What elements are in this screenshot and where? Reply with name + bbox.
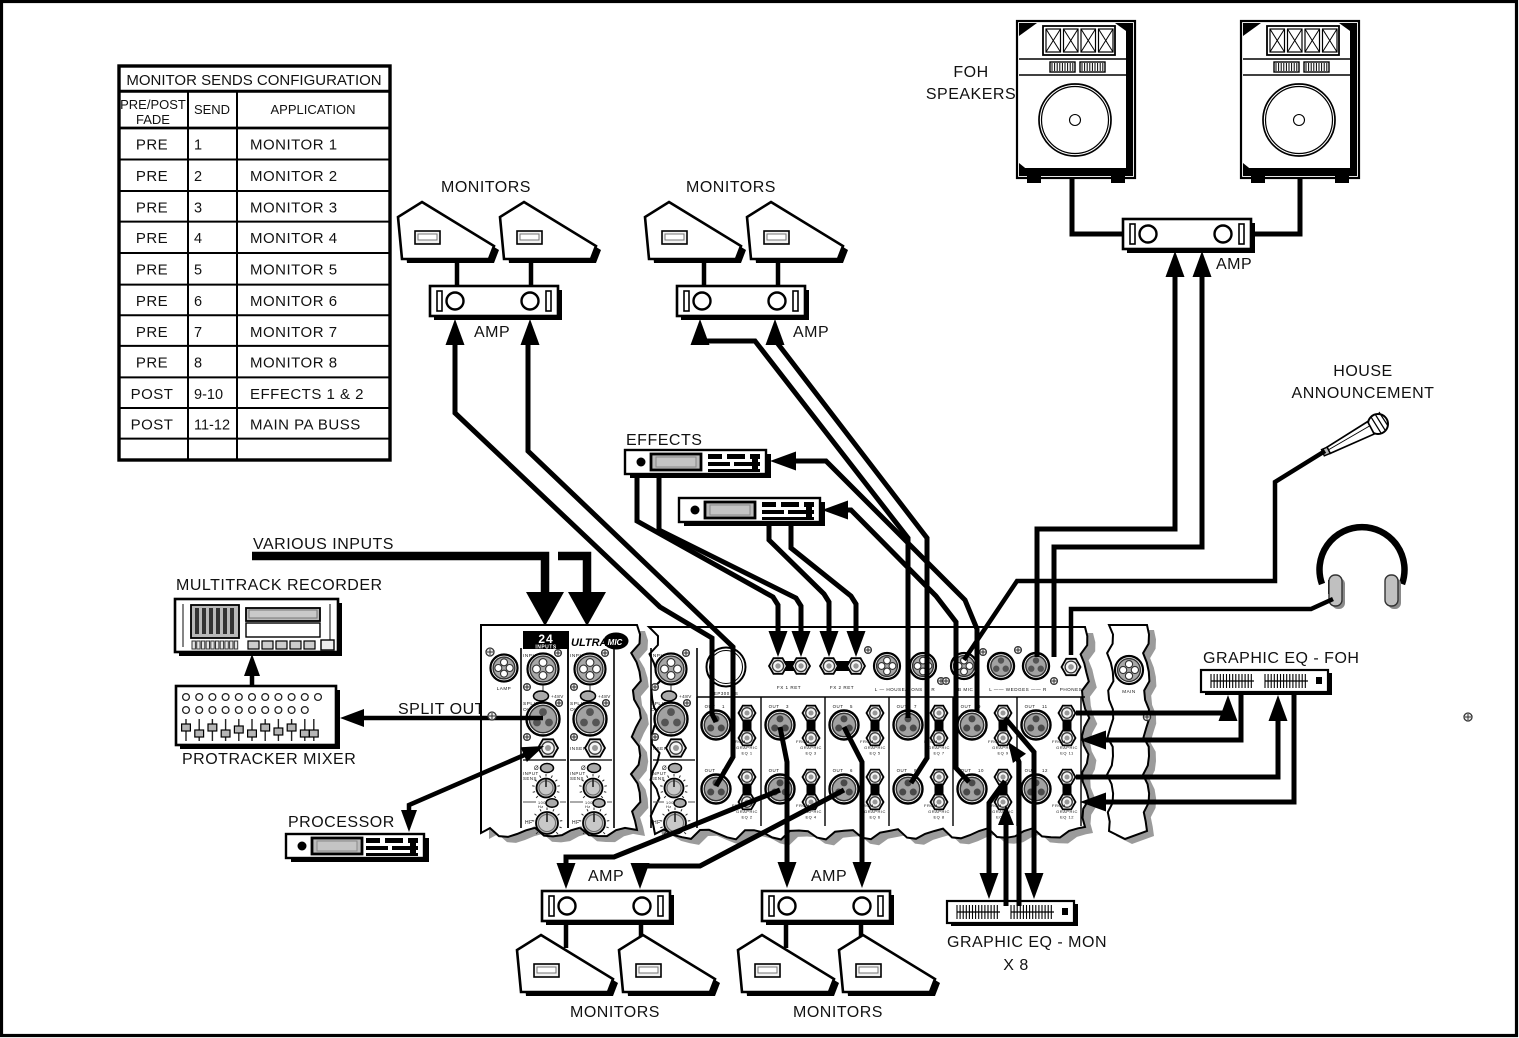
svg-text:PRE: PRE [136,137,168,154]
svg-text:4: 4 [194,231,202,247]
svg-text:APPLICATION: APPLICATION [270,102,355,117]
svg-text:7: 7 [194,325,202,341]
svg-text:MONITOR 1: MONITOR 1 [250,137,338,154]
svg-text:MONITORS: MONITORS [686,179,776,196]
svg-text:FADE: FADE [136,112,170,127]
svg-text:OUT: OUT [961,704,972,709]
svg-text:PRE: PRE [136,293,168,310]
svg-text:PROTRACKER MIXER: PROTRACKER MIXER [182,751,356,768]
svg-text:Hz: Hz [585,805,591,809]
svg-text:EQ 7: EQ 7 [933,751,944,756]
svg-text:+48V: +48V [598,694,611,699]
svg-text:9-10: 9-10 [194,387,223,403]
svg-text:GRAPHIC EQ - MON: GRAPHIC EQ - MON [947,934,1107,951]
svg-text:PRE: PRE [136,230,168,247]
svg-text:GRAPHIC: GRAPHIC [864,745,886,750]
svg-text:ULTRA: ULTRA [571,637,608,649]
svg-text:EQ 3: EQ 3 [805,751,816,756]
svg-text:Hz: Hz [538,805,544,809]
svg-text:PRE: PRE [136,168,168,185]
svg-text:3: 3 [786,704,789,709]
svg-text:GRAPHIC EQ - FOH: GRAPHIC EQ - FOH [1203,650,1359,667]
svg-text:6: 6 [194,294,202,310]
svg-text:FROM: FROM [1052,803,1066,808]
svg-text:SPEAKERS: SPEAKERS [926,86,1016,103]
svg-text:GRAPHIC: GRAPHIC [1056,809,1078,814]
svg-text:MONITORS: MONITORS [441,179,531,196]
svg-text:1: 1 [194,138,202,154]
svg-text:FX 1 RET: FX 1 RET [777,685,801,690]
svg-text:MONITOR 5: MONITOR 5 [250,262,338,279]
svg-text:MONITOR 7: MONITOR 7 [250,324,338,341]
svg-text:5: 5 [194,263,202,279]
svg-text:AMP: AMP [1216,256,1252,273]
svg-text:GRAPHIC: GRAPHIC [736,745,758,750]
svg-text:GRAPHIC: GRAPHIC [736,809,758,814]
svg-text:2: 2 [194,169,202,185]
svg-text:1: 1 [722,704,725,709]
svg-text:OUT: OUT [833,704,844,709]
svg-text:AMP: AMP [588,868,624,885]
svg-text:MONITOR 6: MONITOR 6 [250,293,338,310]
svg-text:OUT: OUT [1025,704,1036,709]
svg-text:OUT: OUT [833,768,844,773]
svg-text:MONITOR 4: MONITOR 4 [250,230,338,247]
svg-text:GRAPHIC: GRAPHIC [800,745,822,750]
svg-text:PRE: PRE [136,354,168,371]
svg-text:FX 2 RET: FX 2 RET [830,685,854,690]
svg-text:EQ 1: EQ 1 [741,751,752,756]
svg-text:PRE: PRE [136,324,168,341]
svg-text:X 8: X 8 [1003,957,1029,974]
svg-text:OUT: OUT [769,768,780,773]
svg-text:6: 6 [850,768,853,773]
svg-text:+48V: +48V [679,694,692,699]
svg-text:8: 8 [194,355,202,371]
svg-text:EQ 12: EQ 12 [1060,815,1074,820]
svg-text:EQ 6: EQ 6 [869,815,880,820]
svg-text:3: 3 [194,201,202,217]
svg-text:GRAPHIC: GRAPHIC [928,745,950,750]
svg-text:FROM: FROM [860,739,874,744]
svg-text:INPUTS: INPUTS [535,645,557,651]
svg-text:HOUSE: HOUSE [1333,363,1392,380]
svg-text:FROM: FROM [988,739,1002,744]
svg-text:FROM: FROM [1052,739,1066,744]
svg-text:7: 7 [914,704,917,709]
svg-text:HF: HF [653,820,661,826]
svg-text:OUT: OUT [705,768,716,773]
svg-text:PRE/POST: PRE/POST [120,97,186,112]
svg-text:MAIN PA BUSS: MAIN PA BUSS [250,417,361,434]
svg-text:PRE: PRE [136,200,168,217]
svg-text:FOH: FOH [953,64,988,81]
svg-text:OUT: OUT [897,768,908,773]
svg-text:11-12: 11-12 [194,418,230,434]
svg-text:EQ 9: EQ 9 [997,751,1008,756]
svg-text:MONITOR 8: MONITOR 8 [250,354,338,371]
svg-text:5: 5 [850,704,853,709]
svg-text:PRE: PRE [136,262,168,279]
svg-text:HF: HF [572,820,580,826]
svg-text:GRAPHIC: GRAPHIC [864,809,886,814]
svg-text:AMP: AMP [793,324,829,341]
svg-text:EFFECTS 1 & 2: EFFECTS 1 & 2 [250,386,364,403]
svg-text:POST: POST [131,386,174,403]
svg-text:MONITORS: MONITORS [793,1004,883,1021]
svg-text:FROM: FROM [796,739,810,744]
svg-text:AMP: AMP [474,324,510,341]
svg-text:AMP: AMP [811,868,847,885]
svg-text:LAMP: LAMP [497,686,512,691]
svg-text:EQ 11: EQ 11 [1060,751,1074,756]
svg-text:OUT: OUT [769,704,780,709]
svg-text:PROCESSOR: PROCESSOR [288,814,395,831]
svg-text:EQ 5: EQ 5 [869,751,880,756]
svg-text:EQ 4: EQ 4 [805,815,816,820]
svg-text:GRAPHIC: GRAPHIC [928,809,950,814]
svg-text:+48V: +48V [551,694,564,699]
svg-text:MIC: MIC [608,638,623,647]
svg-text:MONITOR 2: MONITOR 2 [250,168,338,185]
svg-text:MONITOR 3: MONITOR 3 [250,200,338,217]
svg-text:HF: HF [525,820,533,826]
svg-text:L —— WEDGES —— R: L —— WEDGES —— R [989,687,1047,692]
svg-text:PHONES: PHONES [1060,687,1082,692]
svg-text:11: 11 [1042,704,1048,709]
svg-text:MONITORS: MONITORS [570,1004,660,1021]
svg-text:ANNOUNCEMENT: ANNOUNCEMENT [1292,385,1435,402]
svg-text:10: 10 [978,768,984,773]
svg-text:SPLIT OUT: SPLIT OUT [398,701,485,718]
svg-text:MONITOR SENDS CONFIGURATION: MONITOR SENDS CONFIGURATION [126,72,381,89]
svg-text:EFFECTS: EFFECTS [626,432,702,449]
svg-text:FROM: FROM [924,803,938,808]
svg-text:VARIOUS INPUTS: VARIOUS INPUTS [253,536,394,553]
svg-text:12: 12 [1042,768,1048,773]
svg-text:POST: POST [131,417,174,434]
svg-text:EQ 8: EQ 8 [933,815,944,820]
svg-text:MULTITRACK RECORDER: MULTITRACK RECORDER [176,577,383,594]
svg-text:SEND: SEND [194,102,230,117]
svg-text:EQ 2: EQ 2 [741,815,752,820]
svg-text:Hz: Hz [666,805,672,809]
svg-text:GRAPHIC: GRAPHIC [1056,745,1078,750]
svg-text:MAIN: MAIN [1122,689,1135,694]
